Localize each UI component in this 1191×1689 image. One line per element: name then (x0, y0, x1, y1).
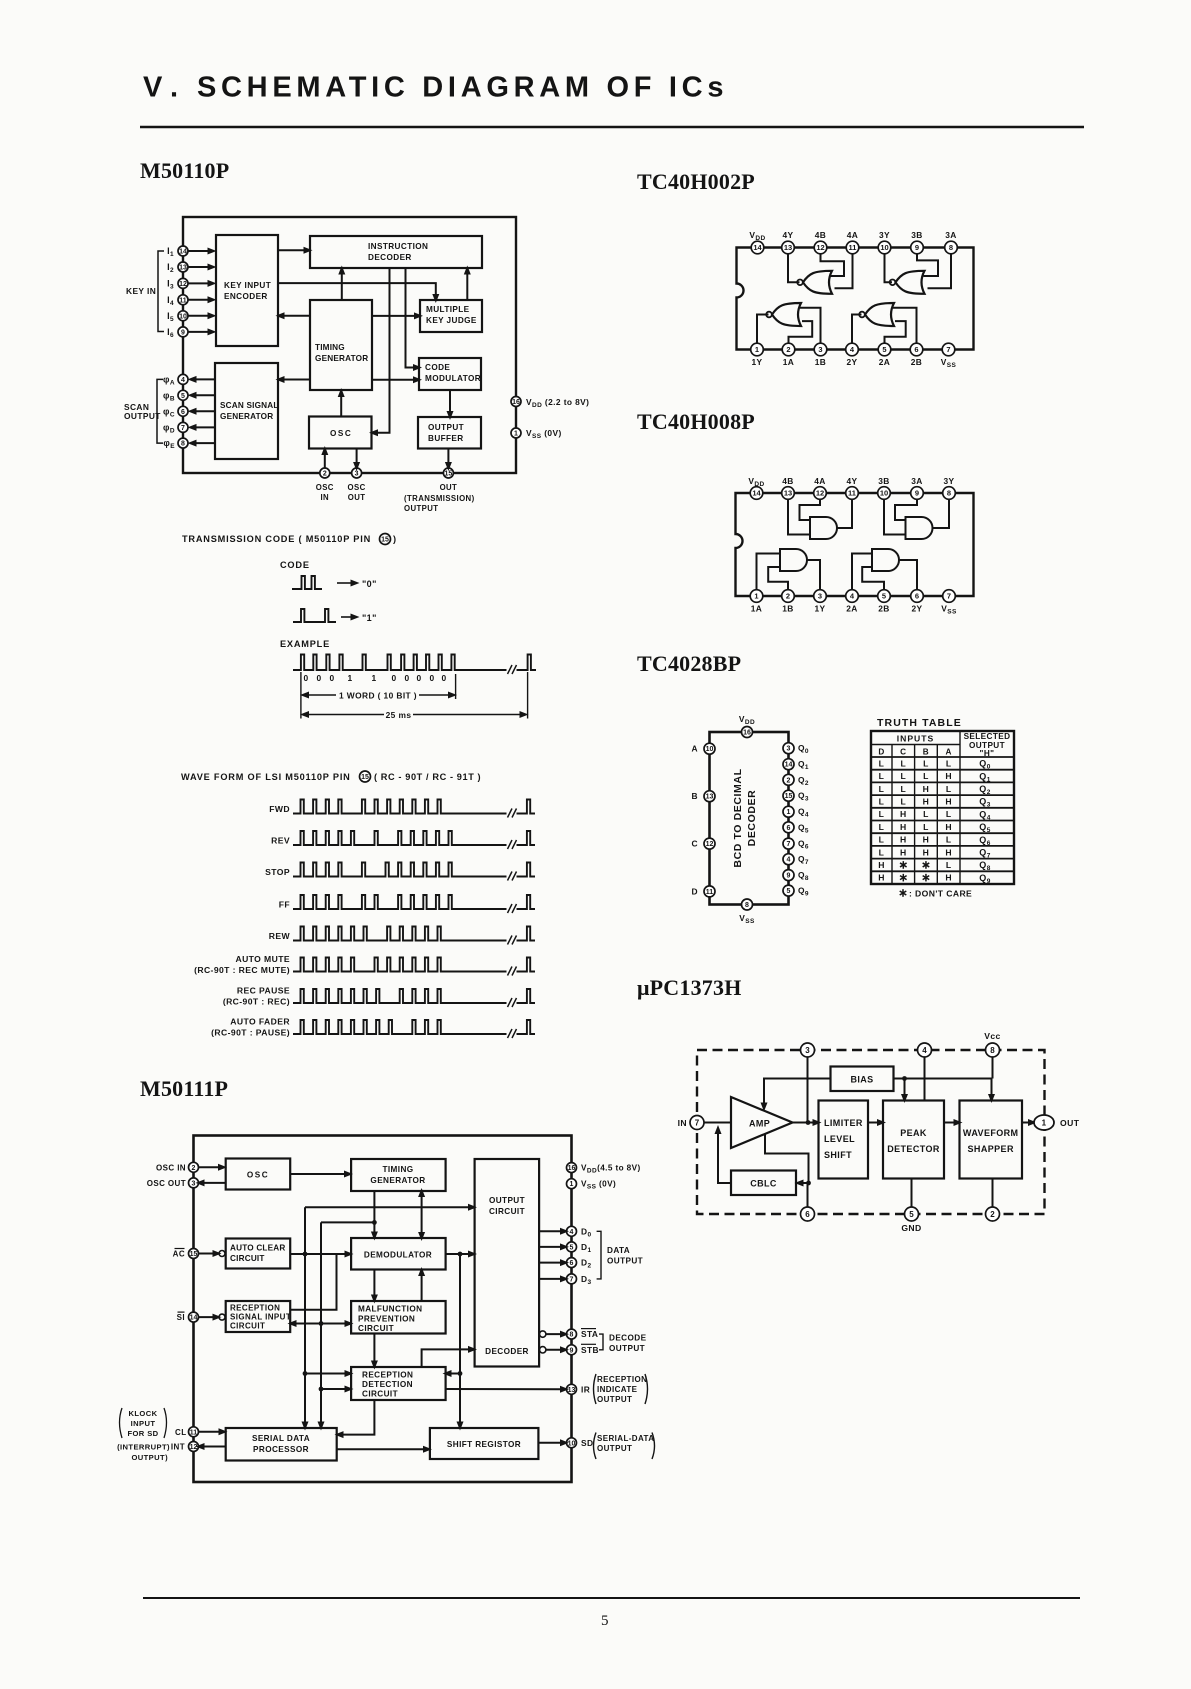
svg-text:2A: 2A (846, 604, 858, 614)
svg-text:OSC: OSC (316, 483, 334, 492)
svg-text:0: 0 (416, 673, 421, 683)
svg-text:3B: 3B (878, 476, 890, 486)
svg-text:M50111P: M50111P (140, 1076, 228, 1101)
svg-text:7: 7 (946, 345, 950, 354)
svg-text:SCAN SIGNAL: SCAN SIGNAL (220, 401, 279, 410)
svg-text:H: H (923, 835, 930, 845)
svg-text:5: 5 (570, 1244, 574, 1251)
svg-text:H: H (900, 809, 907, 819)
svg-text:10: 10 (880, 243, 888, 252)
svg-text:CIRCUIT: CIRCUIT (358, 1324, 394, 1333)
svg-text:LEVEL: LEVEL (824, 1134, 855, 1144)
svg-text:2: 2 (990, 1210, 995, 1219)
svg-text:2: 2 (323, 471, 327, 478)
svg-text:12: 12 (816, 489, 824, 498)
svg-text:6: 6 (570, 1260, 574, 1267)
svg-text:1: 1 (514, 431, 518, 438)
svg-text:AMP: AMP (749, 1119, 770, 1129)
svg-text:"1": "1" (362, 613, 377, 623)
svg-text:1: 1 (755, 345, 759, 354)
svg-text:L: L (879, 758, 885, 768)
svg-text:2: 2 (192, 1165, 196, 1172)
svg-text:15: 15 (445, 471, 453, 478)
svg-text:0: 0 (303, 673, 308, 683)
svg-text:BCD TO DECIMAL: BCD TO DECIMAL (732, 768, 744, 867)
svg-text:DATA: DATA (607, 1246, 630, 1255)
svg-text:STA: STA (581, 1329, 598, 1339)
svg-text:OUTPUT: OUTPUT (124, 411, 161, 421)
svg-text:B: B (692, 791, 698, 801)
svg-text:4A: 4A (847, 230, 859, 240)
svg-text:A: A (692, 744, 698, 754)
svg-text:INPUT: INPUT (131, 1419, 156, 1428)
svg-text:L: L (946, 860, 952, 870)
svg-text:SHIFT: SHIFT (824, 1150, 852, 1160)
svg-text:L: L (879, 835, 885, 845)
svg-text:SD: SD (581, 1438, 593, 1448)
svg-text:DECODER: DECODER (368, 253, 412, 262)
svg-text:1B: 1B (782, 604, 794, 614)
svg-text:H: H (945, 847, 952, 857)
svg-text:1: 1 (570, 1181, 574, 1188)
svg-text:L: L (946, 835, 952, 845)
svg-text:14: 14 (753, 243, 762, 252)
svg-text:H: H (923, 784, 930, 794)
svg-text:H: H (900, 822, 907, 832)
svg-text:H: H (945, 873, 952, 883)
svg-text:STOP: STOP (265, 867, 290, 877)
svg-text:(TRANSMISSION): (TRANSMISSION) (404, 494, 475, 503)
svg-text:EXAMPLE: EXAMPLE (280, 639, 330, 649)
svg-text:0: 0 (329, 673, 334, 683)
svg-text:TC4028BP: TC4028BP (637, 651, 741, 676)
svg-text:RECEPTION: RECEPTION (597, 1375, 647, 1384)
svg-text:4: 4 (787, 857, 791, 864)
svg-text:IN: IN (678, 1118, 687, 1128)
svg-text:3: 3 (818, 592, 822, 601)
svg-text:L: L (879, 796, 885, 806)
svg-text:7: 7 (181, 425, 185, 432)
svg-text:FF: FF (279, 900, 290, 910)
svg-text:13: 13 (568, 1387, 576, 1394)
svg-text:25 ms: 25 ms (386, 710, 412, 720)
svg-text:3A: 3A (945, 230, 957, 240)
svg-text:H: H (900, 847, 907, 857)
svg-text:OUTPUT: OUTPUT (607, 1257, 643, 1266)
svg-text:MALFUNCTION: MALFUNCTION (358, 1305, 422, 1314)
svg-text:8: 8 (181, 441, 185, 448)
svg-text:AC: AC (173, 1250, 185, 1259)
svg-text:6: 6 (915, 592, 919, 601)
svg-text:OUTPUT: OUTPUT (489, 1196, 525, 1205)
svg-text:6: 6 (805, 1210, 810, 1219)
svg-text:3: 3 (355, 471, 359, 478)
svg-text:1A: 1A (783, 357, 795, 367)
svg-text:14: 14 (179, 249, 187, 256)
svg-text:REV: REV (271, 836, 290, 846)
svg-text:TIMING: TIMING (315, 343, 345, 352)
svg-text:4Y: 4Y (782, 230, 793, 240)
svg-text:2B: 2B (911, 357, 923, 367)
svg-text:1: 1 (787, 809, 791, 816)
svg-text:GENERATOR: GENERATOR (370, 1176, 425, 1185)
svg-text:PROCESSOR: PROCESSOR (253, 1445, 309, 1454)
svg-text:4: 4 (181, 377, 185, 384)
svg-text:H: H (945, 822, 952, 832)
svg-text:.: . (170, 72, 178, 104)
svg-text:3Y: 3Y (943, 476, 954, 486)
svg-text:11: 11 (706, 889, 714, 896)
svg-text:4: 4 (922, 1046, 927, 1055)
svg-text:AUTO FADER: AUTO FADER (230, 1017, 290, 1027)
svg-text:12: 12 (190, 1444, 198, 1451)
svg-text:OSC: OSC (247, 1171, 269, 1180)
svg-text:1Y: 1Y (751, 357, 762, 367)
svg-text:5: 5 (181, 393, 185, 400)
svg-text:H: H (878, 860, 885, 870)
svg-text:STB: STB (581, 1345, 599, 1355)
svg-text:WAVE FORM OF LSI M50110P: WAVE FORM OF LSI M50110P PIN (181, 772, 351, 782)
svg-text:(RC-90T : PAUSE): (RC-90T : PAUSE) (211, 1028, 290, 1038)
svg-text:OUTPUT: OUTPUT (597, 1395, 632, 1404)
svg-text:3: 3 (787, 746, 791, 753)
svg-text:5: 5 (882, 345, 886, 354)
svg-text:0: 0 (316, 673, 321, 683)
svg-text:DETECTION: DETECTION (362, 1380, 413, 1389)
svg-text:13: 13 (179, 265, 187, 272)
svg-text:LIMITER: LIMITER (824, 1118, 863, 1128)
svg-text:8: 8 (947, 489, 951, 498)
svg-text:CIRCUIT: CIRCUIT (230, 1254, 265, 1263)
svg-text:0: 0 (391, 673, 396, 683)
svg-text:CIRCUIT: CIRCUIT (230, 1322, 265, 1331)
svg-text:8: 8 (949, 243, 953, 252)
svg-text:2Y: 2Y (846, 357, 857, 367)
svg-text:3A: 3A (911, 476, 923, 486)
svg-text:15: 15 (190, 1251, 198, 1258)
svg-text:SI: SI (177, 1313, 185, 1322)
svg-text:8: 8 (990, 1046, 995, 1055)
svg-text:): ) (393, 534, 396, 544)
svg-text:11: 11 (849, 243, 857, 252)
svg-text:L: L (879, 784, 885, 794)
svg-text:μPC1373H: μPC1373H (637, 975, 742, 1000)
svg-text:OUT: OUT (348, 493, 366, 502)
svg-text:L: L (923, 822, 929, 832)
svg-text:INPUTS: INPUTS (897, 734, 935, 744)
svg-text:INT: INT (171, 1443, 185, 1452)
svg-text:L: L (900, 796, 906, 806)
svg-text:H: H (900, 835, 907, 845)
svg-text:A: A (945, 748, 951, 757)
svg-text:8: 8 (570, 1332, 574, 1339)
svg-text:RECEPTION: RECEPTION (362, 1371, 413, 1380)
svg-text:ENCODER: ENCODER (224, 292, 268, 301)
svg-text:C: C (692, 839, 698, 849)
svg-text:3: 3 (805, 1046, 810, 1055)
svg-text:14: 14 (752, 489, 761, 498)
svg-text:L: L (900, 758, 906, 768)
svg-text:FOR SD: FOR SD (127, 1429, 158, 1438)
svg-text:1B: 1B (815, 357, 827, 367)
svg-text:B: B (923, 748, 929, 757)
svg-text:SHAPPER: SHAPPER (968, 1144, 1014, 1154)
svg-text:OSC OUT: OSC OUT (147, 1179, 186, 1188)
svg-text:CL: CL (175, 1428, 186, 1437)
svg-text:L: L (879, 822, 885, 832)
svg-text:9: 9 (570, 1347, 574, 1354)
svg-text:CIRCUIT: CIRCUIT (362, 1390, 398, 1399)
svg-text:1 WORD ( 10 BIT ): 1 WORD ( 10 BIT ) (339, 690, 417, 700)
svg-text:L: L (946, 758, 952, 768)
svg-text:15: 15 (361, 774, 369, 781)
svg-text:KEY INPUT: KEY INPUT (224, 281, 271, 290)
svg-text:BUFFER: BUFFER (428, 434, 464, 443)
svg-text:OSC: OSC (330, 429, 352, 438)
svg-text:6: 6 (181, 409, 185, 416)
svg-text:L: L (879, 771, 885, 781)
svg-text:4B: 4B (782, 476, 794, 486)
svg-text:(RC-90T : REC MUTE): (RC-90T : REC MUTE) (194, 965, 290, 975)
svg-text:15: 15 (381, 537, 389, 544)
svg-text:AUTO CLEAR: AUTO CLEAR (230, 1244, 286, 1253)
svg-text:D: D (878, 748, 884, 757)
svg-text:3: 3 (192, 1180, 196, 1187)
svg-text:V: V (143, 72, 163, 104)
svg-text:L: L (946, 784, 952, 794)
svg-text:(RC-90T : REC): (RC-90T : REC) (223, 997, 290, 1007)
svg-text:L: L (923, 809, 929, 819)
svg-text:2: 2 (786, 592, 790, 601)
svg-text:5: 5 (909, 1210, 914, 1219)
svg-text:: DON'T CARE: : DON'T CARE (909, 889, 972, 899)
svg-text:14: 14 (785, 762, 793, 769)
svg-text:OSC IN: OSC IN (156, 1163, 186, 1172)
svg-text:4A: 4A (814, 476, 826, 486)
svg-text:KEY JUDGE: KEY JUDGE (426, 316, 477, 325)
svg-text:OUTPUT): OUTPUT) (131, 1453, 168, 1462)
svg-text:INSTRUCTION: INSTRUCTION (368, 242, 428, 251)
svg-text:4B: 4B (815, 230, 827, 240)
svg-text:5: 5 (787, 888, 791, 895)
svg-text:2Y: 2Y (911, 604, 922, 614)
svg-text:MODULATOR: MODULATOR (425, 374, 481, 383)
svg-text:7: 7 (570, 1276, 574, 1283)
svg-text:AUTO MUTE: AUTO MUTE (235, 954, 290, 964)
svg-text:10: 10 (568, 1440, 576, 1447)
svg-text:2A: 2A (879, 357, 891, 367)
svg-text:H: H (945, 771, 952, 781)
svg-text:REC PAUSE: REC PAUSE (237, 986, 290, 996)
svg-text:3: 3 (818, 345, 822, 354)
svg-text:Vcc: Vcc (984, 1031, 1001, 1041)
svg-text:OUTPUT: OUTPUT (609, 1344, 645, 1353)
svg-text:1: 1 (1042, 1119, 1047, 1128)
svg-text:( RC - 90T / RC - 91T ): ( RC - 90T / RC - 91T ) (374, 772, 481, 782)
svg-text:KLOCK: KLOCK (129, 1409, 158, 1418)
svg-text:D: D (692, 886, 698, 896)
svg-text:FWD: FWD (269, 804, 290, 814)
svg-text:SERIAL-DATA: SERIAL-DATA (597, 1434, 654, 1443)
svg-text:13: 13 (784, 489, 792, 498)
svg-text:5: 5 (882, 592, 886, 601)
svg-text:KEY IN: KEY IN (126, 286, 156, 296)
svg-text:WAVEFORM: WAVEFORM (963, 1128, 1019, 1138)
svg-text:"H": "H" (980, 749, 995, 758)
svg-text:8: 8 (745, 902, 749, 909)
svg-text:10: 10 (179, 313, 187, 320)
svg-text:2: 2 (787, 777, 791, 784)
svg-text:SERIAL DATA: SERIAL DATA (252, 1434, 310, 1443)
svg-text:CIRCUIT: CIRCUIT (489, 1207, 525, 1216)
svg-text:OUTPUT: OUTPUT (428, 423, 464, 432)
svg-text:TRUTH TABLE: TRUTH TABLE (877, 717, 962, 729)
svg-text:0: 0 (429, 673, 434, 683)
svg-text:16: 16 (568, 1165, 576, 1172)
svg-text:H: H (923, 796, 930, 806)
svg-text:2B: 2B (878, 604, 890, 614)
svg-text:DECODE: DECODE (609, 1334, 647, 1343)
svg-text:9: 9 (787, 873, 791, 880)
svg-text:DECODER: DECODER (746, 790, 758, 847)
svg-text:TIMING: TIMING (382, 1165, 413, 1174)
svg-text:C: C (900, 748, 906, 757)
svg-text:2: 2 (786, 345, 790, 354)
svg-text:SCHEMATIC DIAGRAM OF ICs: SCHEMATIC DIAGRAM OF ICs (197, 72, 728, 104)
svg-text:IN: IN (320, 493, 329, 502)
svg-text:16: 16 (743, 730, 751, 737)
svg-text:CODE: CODE (280, 560, 310, 570)
svg-text:PEAK: PEAK (900, 1128, 927, 1138)
svg-text:SIGNAL INPUT: SIGNAL INPUT (230, 1313, 291, 1322)
svg-text:7: 7 (787, 841, 791, 848)
svg-text:11: 11 (179, 297, 187, 304)
svg-text:6: 6 (914, 345, 918, 354)
svg-text:RECEPTION: RECEPTION (230, 1304, 280, 1313)
svg-text:OUT: OUT (440, 483, 458, 492)
svg-text:OUTPUT: OUTPUT (404, 504, 438, 513)
svg-text:12: 12 (816, 243, 824, 252)
svg-text:0: 0 (441, 673, 446, 683)
svg-text:MULTIPLE: MULTIPLE (426, 305, 470, 314)
svg-text:7: 7 (947, 592, 951, 601)
svg-text:10: 10 (880, 489, 888, 498)
svg-text:L: L (946, 809, 952, 819)
svg-text:L: L (923, 771, 929, 781)
svg-text:9: 9 (915, 243, 919, 252)
svg-text:1A: 1A (751, 604, 763, 614)
svg-text:15: 15 (785, 793, 793, 800)
svg-text:3Y: 3Y (879, 230, 890, 240)
svg-text:CBLC: CBLC (750, 1179, 777, 1189)
svg-text:CODE: CODE (425, 363, 450, 372)
svg-text:5: 5 (601, 1613, 609, 1629)
svg-text:1: 1 (754, 592, 758, 601)
svg-text:DETECTOR: DETECTOR (887, 1144, 940, 1154)
svg-text:OUTPUT: OUTPUT (597, 1444, 632, 1453)
svg-text:BIAS: BIAS (850, 1075, 873, 1085)
svg-text:H: H (945, 796, 952, 806)
svg-text:OUT: OUT (1060, 1118, 1080, 1128)
svg-text:L: L (900, 784, 906, 794)
svg-text:H: H (923, 847, 930, 857)
svg-text:4Y: 4Y (846, 476, 857, 486)
svg-text:0: 0 (404, 673, 409, 683)
svg-text:M50110P: M50110P (140, 158, 229, 183)
svg-text:SELECTED: SELECTED (964, 732, 1011, 741)
svg-text:TC40H002P: TC40H002P (637, 169, 755, 194)
svg-text:11: 11 (848, 489, 856, 498)
svg-text:12: 12 (706, 841, 714, 848)
svg-text:1: 1 (371, 673, 376, 683)
svg-text:DECODER: DECODER (485, 1347, 529, 1356)
svg-text:14: 14 (190, 1315, 198, 1322)
svg-text:L: L (879, 847, 885, 857)
svg-text:1: 1 (347, 673, 352, 683)
svg-text:"0": "0" (362, 579, 377, 589)
svg-text:SHIFT REGISTOR: SHIFT REGISTOR (447, 1440, 521, 1449)
svg-text:1Y: 1Y (814, 604, 825, 614)
svg-text:PREVENTION: PREVENTION (358, 1315, 415, 1324)
svg-text:TRANSMISSION CODE ( M50110P: TRANSMISSION CODE ( M50110P PIN (182, 534, 371, 544)
svg-text:OSC: OSC (348, 483, 366, 492)
svg-text:GND: GND (901, 1223, 921, 1233)
svg-text:GENERATOR: GENERATOR (220, 412, 273, 421)
svg-text:12: 12 (179, 281, 187, 288)
svg-text:13: 13 (706, 794, 714, 801)
svg-text:3B: 3B (911, 230, 923, 240)
svg-text:H: H (878, 873, 885, 883)
svg-text:6: 6 (787, 825, 791, 832)
svg-text:13: 13 (784, 243, 792, 252)
svg-text:9: 9 (915, 489, 919, 498)
svg-text:11: 11 (190, 1429, 198, 1436)
svg-text:TC40H008P: TC40H008P (637, 409, 755, 434)
svg-text:IR: IR (581, 1384, 590, 1394)
svg-text:DEMODULATOR: DEMODULATOR (364, 1251, 432, 1260)
svg-text:L: L (923, 758, 929, 768)
svg-text:L: L (879, 809, 885, 819)
svg-text:16: 16 (512, 399, 520, 406)
svg-text:L: L (900, 771, 906, 781)
svg-text:INDICATE: INDICATE (597, 1385, 638, 1394)
svg-text:10: 10 (706, 746, 714, 753)
svg-text:4: 4 (570, 1229, 574, 1236)
svg-text:REW: REW (269, 931, 291, 941)
svg-text:7: 7 (695, 1118, 700, 1127)
svg-text:(INTERRUPT): (INTERRUPT) (117, 1443, 170, 1452)
svg-text:GENERATOR: GENERATOR (315, 354, 368, 363)
svg-text:9: 9 (181, 329, 185, 336)
